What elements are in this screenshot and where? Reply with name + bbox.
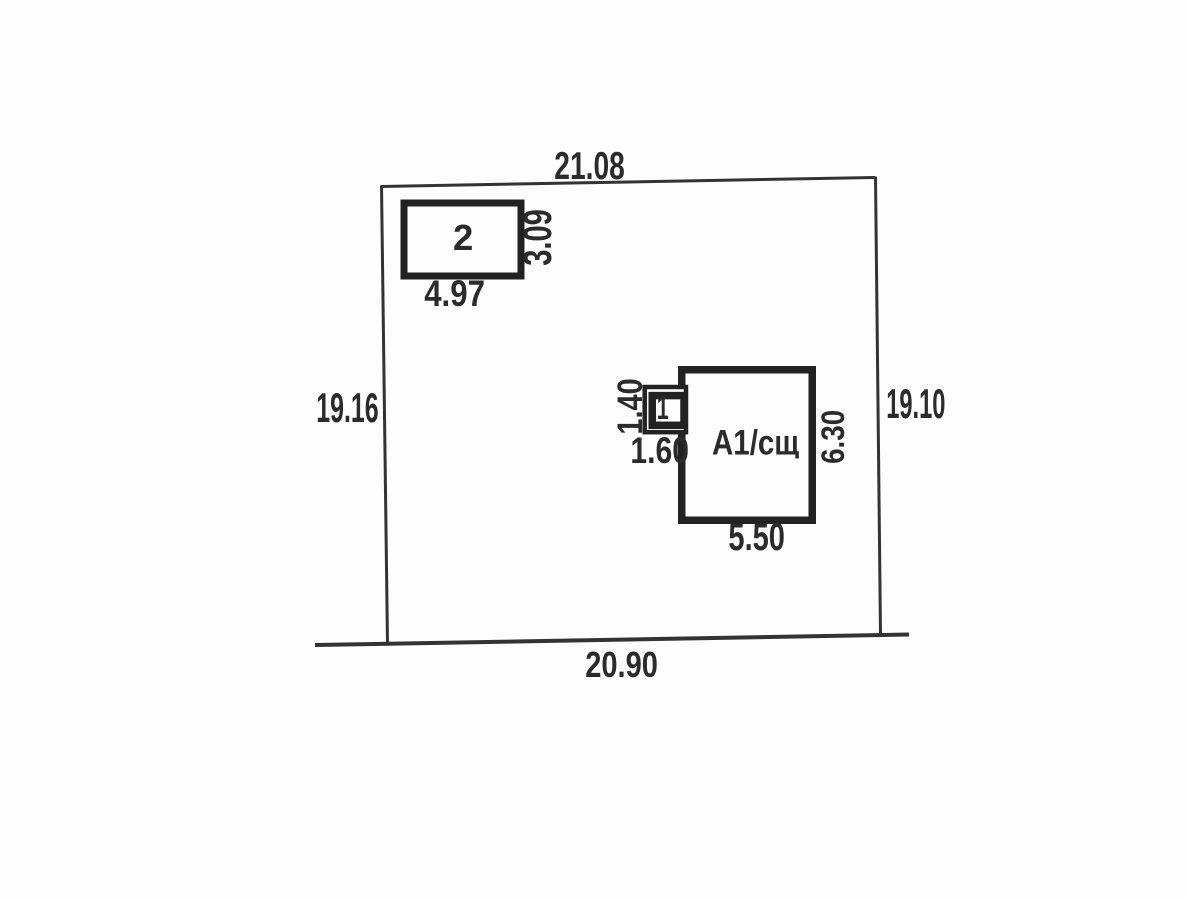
plot boundary top side	[381, 178, 875, 187]
svg-text:1.40: 1.40	[610, 378, 649, 434]
building 2 outline	[404, 203, 521, 276]
plot boundary left side	[382, 186, 388, 645]
building A1 outline	[682, 370, 813, 521]
annex 1 inner wall	[652, 396, 684, 426]
svg-text:6.30: 6.30	[816, 410, 851, 464]
svg-text:А1/сщ: А1/сщ	[712, 423, 799, 462]
svg-text:19.10: 19.10	[886, 381, 945, 428]
street line bottom boundary	[315, 635, 909, 646]
svg-text:3.09: 3.09	[516, 209, 561, 266]
svg-text:5.50: 5.50	[728, 516, 785, 559]
svg-text:1: 1	[657, 389, 669, 426]
trim of shch descender tail	[792, 459, 802, 464]
svg-text:21.08: 21.08	[554, 145, 625, 189]
plot boundary right side	[876, 177, 881, 635]
svg-text:1.60: 1.60	[630, 430, 689, 472]
svg-text:2: 2	[453, 217, 473, 258]
svg-text:20.90: 20.90	[585, 644, 658, 685]
annex 1 outer wall	[645, 387, 686, 432]
svg-text:19.16: 19.16	[316, 386, 378, 432]
svg-text:4.97: 4.97	[424, 274, 485, 315]
